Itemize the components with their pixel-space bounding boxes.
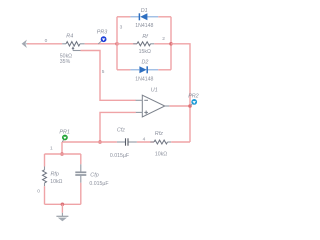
node 0 label (45, 38, 48, 44)
junction node 3 (115, 42, 119, 46)
probe PR3 (97, 30, 108, 44)
svg-text:0: 0 (37, 189, 40, 195)
node 3 label (120, 24, 123, 30)
svg-text:0.015µF: 0.015µF (110, 153, 129, 159)
svg-text:PR2: PR2 (188, 93, 199, 99)
junction on RC box top (60, 152, 64, 156)
svg-text:10kΩ: 10kΩ (155, 151, 167, 157)
wire op-amp output (169, 105, 190, 107)
svg-text:D2: D2 (142, 59, 149, 65)
svg-text:1N4148: 1N4148 (135, 77, 153, 83)
wire box left upper (44, 154, 46, 167)
wire box right lower (80, 183, 82, 205)
wire pot wiper to op-amp inverting input (node 5) (81, 51, 136, 101)
svg-text:15kΩ: 15kΩ (139, 49, 151, 55)
probe PR1 (59, 129, 70, 141)
wire box left lower (44, 186, 46, 204)
diode D1 1N4148 (130, 8, 158, 29)
junction non-inverting tap (98, 140, 102, 144)
wire node2 to output vertical (171, 44, 190, 142)
resistor Rf 15k (117, 34, 171, 55)
RC box top wire (45, 153, 81, 155)
wire ground stub (61, 204, 63, 213)
wire node1 corner down (61, 142, 63, 154)
svg-text:1: 1 (50, 145, 53, 151)
wire input to pot (27, 43, 62, 45)
svg-text:35%: 35% (60, 59, 71, 65)
RC box bottom wire (45, 203, 81, 205)
node 0 label bottom (37, 189, 40, 195)
svg-text:3: 3 (120, 24, 123, 30)
probe PR2 (188, 93, 199, 105)
svg-text:5: 5 (102, 69, 105, 75)
svg-text:1N4148: 1N4148 (135, 23, 153, 29)
capacitor Cfp 0.015uF (75, 164, 108, 187)
wire pot to junction (85, 43, 117, 45)
potentiometer R4 (60, 34, 85, 66)
node 5 label (102, 69, 105, 75)
node 2 label (162, 36, 165, 42)
wire diode branch right vertical (170, 17, 172, 70)
svg-text:2: 2 (162, 36, 165, 42)
resistor Rfz 10k (150, 131, 171, 157)
wire D1 branch left stub (117, 16, 130, 18)
resistor Rfp 10k (43, 167, 63, 187)
svg-text:Rfp: Rfp (51, 172, 59, 178)
wire D1 branch right stub (158, 16, 171, 18)
wire diode branch left vertical (116, 17, 118, 70)
op-amp U1 (136, 88, 170, 117)
wire Cfz to Rfz (137, 141, 154, 143)
bottom wire left segment (62, 141, 117, 143)
junction node 2 (169, 42, 173, 46)
svg-text:PR3: PR3 (97, 30, 108, 36)
ground (56, 213, 68, 221)
diode D2 1N4148 (130, 59, 158, 82)
svg-text:Cfz: Cfz (117, 128, 125, 134)
junction output node (188, 104, 192, 108)
wire non-inverting input (node 1 to op-amp) (100, 112, 136, 142)
node 4 label (143, 137, 146, 143)
svg-text:0: 0 (45, 38, 48, 44)
svg-text:Cfp: Cfp (90, 173, 98, 179)
wire Rfz to output vertical (171, 141, 190, 143)
svg-text:Rfz: Rfz (155, 131, 163, 137)
svg-text:Rf: Rf (142, 34, 148, 40)
wire D2 branch right stub (158, 69, 171, 71)
input terminal (22, 40, 29, 48)
node 1 label (50, 145, 53, 151)
svg-text:10kΩ: 10kΩ (50, 179, 62, 185)
junction ground tap (61, 203, 65, 207)
wire box right upper (80, 154, 82, 164)
svg-text:0.015µF: 0.015µF (89, 181, 108, 187)
svg-text:U1: U1 (151, 88, 158, 94)
wire D2 branch left stub (117, 69, 130, 71)
svg-text:D1: D1 (141, 8, 148, 14)
svg-text:R4: R4 (66, 34, 73, 40)
svg-text:PR1: PR1 (59, 129, 70, 135)
capacitor Cfz 0.015uF (110, 128, 137, 160)
